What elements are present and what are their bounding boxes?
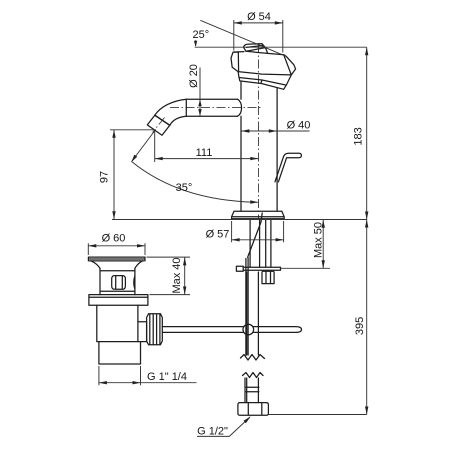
faucet body left edge xyxy=(240,82,242,211)
ball joint xyxy=(243,324,254,335)
spout tube bottom xyxy=(186,115,237,117)
35 degree arc xyxy=(131,155,258,204)
svg-text:G 1/2": G 1/2" xyxy=(197,426,228,438)
bottom reference line xyxy=(269,414,367,416)
supply pipe upper xyxy=(247,272,259,355)
dimension 97 xyxy=(99,130,157,220)
horizontal lift rod xyxy=(162,327,301,333)
faucet body right edge xyxy=(276,88,278,212)
svg-text:Ø 57: Ø 57 xyxy=(206,229,230,241)
svg-text:G 1" 1/4: G 1" 1/4 xyxy=(147,371,187,383)
spout tube top xyxy=(186,98,237,100)
spout elbow outer curve xyxy=(155,99,187,115)
svg-text:Max 40: Max 40 xyxy=(171,257,183,293)
shank line 2 xyxy=(259,220,261,267)
spout tube joint line xyxy=(185,99,187,116)
mounting bracket xyxy=(243,267,280,270)
svg-text:Ø 60: Ø 60 xyxy=(102,232,126,244)
25 degree slant line xyxy=(200,20,286,56)
dimension Max 40 xyxy=(147,257,191,295)
faucet handle cap xyxy=(243,44,265,52)
dimension 183 xyxy=(353,47,369,219)
nozzle axis centerline xyxy=(153,118,165,133)
drain neck taper xyxy=(91,261,142,268)
svg-text:Ø 40: Ø 40 xyxy=(287,119,311,131)
dimension Ø20 xyxy=(188,64,202,116)
label 25° xyxy=(192,29,209,47)
mounting nut xyxy=(262,271,274,283)
top reference line xyxy=(195,46,367,48)
handle skirt xyxy=(238,72,291,90)
svg-text:111: 111 xyxy=(196,147,213,159)
spout joint flare at body xyxy=(238,99,242,116)
drain rod connector xyxy=(138,322,147,342)
knob facet line right xyxy=(284,55,292,75)
dimension 395 xyxy=(354,220,368,415)
bottom hex nut G 1/2 xyxy=(238,403,269,416)
drain body side dimple xyxy=(134,276,135,289)
svg-text:25°: 25° xyxy=(192,29,209,41)
spout nozzle xyxy=(147,115,170,135)
dimension Max 50 xyxy=(281,220,331,269)
svg-text:395: 395 xyxy=(354,317,366,335)
drain body square hole xyxy=(112,276,126,290)
svg-text:35°: 35° xyxy=(176,182,193,194)
drain cylinder xyxy=(97,305,138,341)
svg-text:Ø 54: Ø 54 xyxy=(247,11,271,23)
svg-text:97: 97 xyxy=(99,171,111,183)
drain flange xyxy=(88,257,145,261)
knob facet line front-top xyxy=(246,51,268,53)
bracket left tab xyxy=(236,266,243,271)
lever handle xyxy=(275,153,301,182)
counter reference line xyxy=(112,219,367,221)
dimension G 1" 1/4 xyxy=(99,366,197,385)
label G 1/2" xyxy=(197,416,251,437)
drain tailpiece xyxy=(99,342,141,364)
pop-up rod upper (through base) xyxy=(248,213,263,257)
drain rod nut xyxy=(147,314,163,345)
svg-text:Ø 20: Ø 20 xyxy=(188,64,200,88)
spout elbow inner curve xyxy=(170,116,187,125)
supply pipe lower xyxy=(245,378,258,403)
dimension Ø60 xyxy=(88,232,145,255)
dimension Ø40 xyxy=(241,119,310,132)
base flange xyxy=(232,211,285,219)
pipe break upper xyxy=(241,355,265,361)
dimension Ø57 xyxy=(206,221,284,242)
shank line 1 xyxy=(249,220,251,267)
pipe break lower xyxy=(243,373,264,378)
dimension 111 xyxy=(155,131,259,162)
dimension Ø54 xyxy=(234,11,283,52)
shank line 4 xyxy=(270,220,272,267)
pop-up rod vertical xyxy=(246,258,248,355)
drain lower flange xyxy=(89,295,148,306)
body centerline xyxy=(258,44,260,219)
pipe joint ticks xyxy=(246,387,259,392)
drain body xyxy=(100,268,135,294)
knob facet line left xyxy=(233,52,239,71)
35 degree axis line xyxy=(132,130,156,162)
faucet handle knob xyxy=(231,48,296,75)
spout elbow joint line xyxy=(155,115,170,125)
spout centerline xyxy=(170,107,263,109)
svg-text:183: 183 xyxy=(353,127,365,145)
shank line 3 xyxy=(265,220,267,267)
